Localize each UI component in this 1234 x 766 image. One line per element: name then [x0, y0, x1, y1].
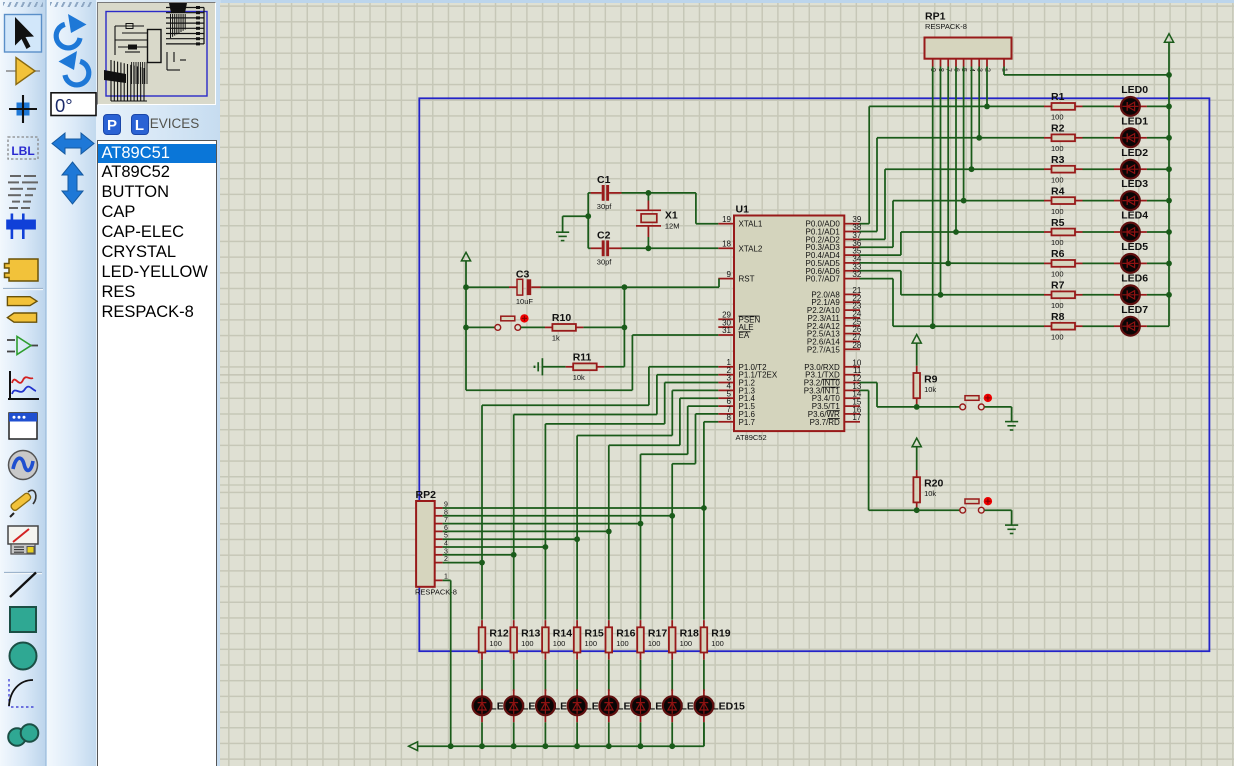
svg-text:R11: R11: [573, 352, 592, 364]
svg-text:100: 100: [489, 639, 502, 648]
svg-text:100: 100: [616, 639, 629, 648]
svg-text:RP1: RP1: [925, 11, 946, 23]
svg-text:0°: 0°: [55, 95, 73, 116]
svg-text:LED4: LED4: [1121, 210, 1148, 222]
svg-text:X1: X1: [665, 210, 678, 222]
svg-text:R6: R6: [1051, 248, 1065, 260]
svg-text:LED7: LED7: [1121, 304, 1148, 316]
svg-text:100: 100: [1051, 332, 1064, 341]
svg-text:100: 100: [553, 639, 566, 648]
svg-text:AT89C52: AT89C52: [736, 433, 767, 442]
svg-text:100: 100: [1051, 113, 1064, 122]
svg-text:9: 9: [727, 270, 732, 279]
svg-text:R1: R1: [1051, 91, 1065, 103]
svg-text:100: 100: [1051, 238, 1064, 247]
svg-text:R5: R5: [1051, 217, 1065, 229]
svg-text:100: 100: [1051, 144, 1064, 153]
svg-text:C1: C1: [597, 174, 611, 186]
svg-text:10k: 10k: [573, 373, 585, 382]
svg-text:100: 100: [1051, 175, 1064, 184]
svg-text:R7: R7: [1051, 280, 1065, 292]
svg-text:R12: R12: [489, 628, 508, 640]
svg-text:P1.7: P1.7: [739, 418, 756, 427]
svg-text:100: 100: [585, 639, 598, 648]
svg-text:LED2: LED2: [1121, 147, 1148, 159]
svg-text:LED6: LED6: [1121, 272, 1148, 284]
svg-text:1k: 1k: [552, 334, 560, 343]
svg-text:U1: U1: [736, 204, 750, 216]
svg-text:XTAL1: XTAL1: [739, 220, 763, 229]
svg-text:LED0: LED0: [1121, 84, 1148, 96]
svg-text:R20: R20: [924, 478, 943, 490]
svg-text:10k: 10k: [924, 385, 936, 394]
svg-text:10uF: 10uF: [516, 297, 534, 306]
svg-text:100: 100: [680, 639, 693, 648]
svg-text:100: 100: [521, 639, 534, 648]
svg-text:1: 1: [444, 574, 448, 581]
svg-text:R4: R4: [1051, 185, 1065, 197]
svg-text:100: 100: [1051, 207, 1064, 216]
svg-text:100: 100: [648, 639, 661, 648]
svg-text:18: 18: [722, 240, 731, 249]
svg-text:28: 28: [852, 341, 861, 350]
svg-text:R3: R3: [1051, 154, 1065, 166]
svg-text:R14: R14: [553, 628, 572, 640]
svg-text:R8: R8: [1051, 311, 1065, 323]
svg-text:100: 100: [1051, 301, 1064, 310]
svg-text:100: 100: [1051, 270, 1064, 279]
svg-text:R17: R17: [648, 628, 667, 640]
svg-text:R16: R16: [616, 628, 635, 640]
svg-text:LED5: LED5: [1121, 241, 1148, 253]
svg-text:LED1: LED1: [1121, 115, 1148, 127]
svg-text:C3: C3: [516, 269, 530, 281]
svg-text:P0.7/AD7: P0.7/AD7: [806, 275, 841, 284]
svg-text:R15: R15: [585, 628, 604, 640]
svg-text:EA: EA: [739, 331, 750, 340]
svg-text:31: 31: [722, 326, 731, 335]
svg-text:30pf: 30pf: [597, 258, 613, 267]
svg-text:R9: R9: [924, 373, 938, 385]
svg-text:R2: R2: [1051, 123, 1065, 135]
svg-text:LBL: LBL: [11, 144, 34, 158]
svg-text:LED15: LED15: [712, 700, 745, 712]
svg-text:R18: R18: [680, 628, 699, 640]
svg-text:RST: RST: [739, 275, 755, 284]
svg-text:R19: R19: [711, 628, 730, 640]
svg-text:17: 17: [852, 413, 861, 422]
svg-text:19: 19: [722, 215, 731, 224]
svg-text:RP2: RP2: [416, 489, 437, 501]
svg-text:XTAL2: XTAL2: [739, 244, 763, 253]
svg-text:12M: 12M: [665, 222, 680, 231]
svg-text:R10: R10: [552, 312, 571, 324]
svg-text:P2.7/A15: P2.7/A15: [807, 345, 840, 354]
svg-text:10k: 10k: [924, 489, 936, 498]
svg-text:C2: C2: [597, 230, 611, 242]
svg-text:30pf: 30pf: [597, 202, 613, 211]
svg-text:8: 8: [727, 413, 732, 422]
svg-text:100: 100: [711, 639, 724, 648]
svg-text:RESPACK-8: RESPACK-8: [925, 22, 967, 31]
svg-text:R13: R13: [521, 628, 540, 640]
svg-text:LED3: LED3: [1121, 178, 1148, 190]
svg-text:P3.7/RD: P3.7/RD: [810, 418, 840, 427]
